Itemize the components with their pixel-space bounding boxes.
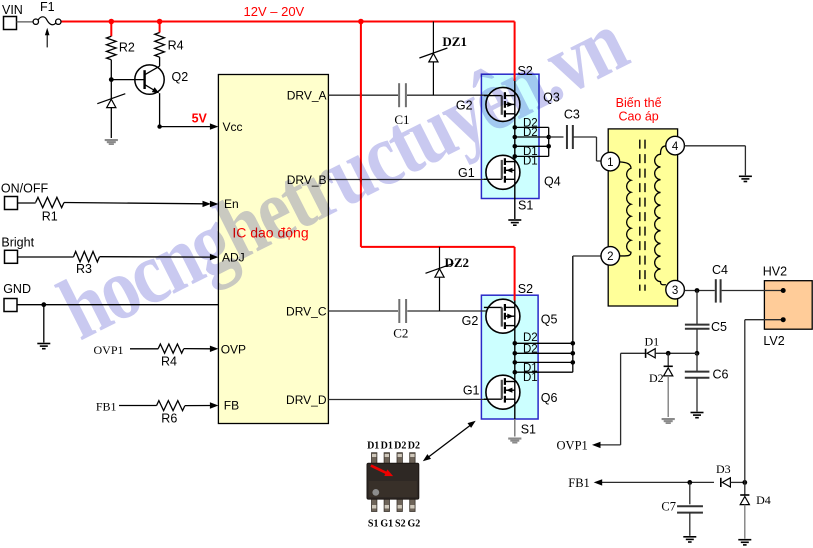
svg-text:D1: D1 <box>381 441 393 452</box>
svg-text:FB1: FB1 <box>568 476 590 490</box>
svg-text:Q6: Q6 <box>541 391 558 405</box>
svg-text:OVP1: OVP1 <box>557 439 588 453</box>
svg-text:R1: R1 <box>42 210 58 224</box>
svg-text:4: 4 <box>672 141 679 153</box>
svg-text:D1: D1 <box>523 372 538 384</box>
svg-text:GND: GND <box>3 282 31 296</box>
svg-text:D1: D1 <box>367 441 379 452</box>
svg-text:R4: R4 <box>168 39 184 53</box>
svg-text:3: 3 <box>672 285 678 297</box>
svg-text:D2: D2 <box>408 441 420 452</box>
svg-text:1: 1 <box>607 157 613 169</box>
svg-text:Cao áp: Cao áp <box>618 110 658 124</box>
svg-text:S1: S1 <box>518 198 533 212</box>
svg-text:C7: C7 <box>661 500 676 514</box>
svg-text:S2: S2 <box>518 282 533 296</box>
svg-text:D2: D2 <box>523 332 538 344</box>
svg-text:DRV_D: DRV_D <box>286 393 327 407</box>
svg-text:Q4: Q4 <box>544 175 561 189</box>
svg-text:Biến thế: Biến thế <box>616 96 662 110</box>
svg-text:S1: S1 <box>368 519 379 530</box>
svg-text:G2: G2 <box>462 314 479 328</box>
svg-text:HV2: HV2 <box>763 265 787 279</box>
svg-text:G2: G2 <box>408 519 421 530</box>
svg-text:R2: R2 <box>119 40 135 54</box>
svg-text:Q5: Q5 <box>541 313 558 327</box>
svg-text:12V – 20V: 12V – 20V <box>244 4 305 19</box>
svg-text:DRV_C: DRV_C <box>286 305 327 319</box>
svg-text:D2: D2 <box>394 441 406 452</box>
svg-text:C5: C5 <box>711 320 727 334</box>
svg-text:S2: S2 <box>395 519 406 530</box>
svg-text:D1: D1 <box>523 156 538 168</box>
svg-text:G1: G1 <box>463 384 480 398</box>
svg-text:VIN: VIN <box>2 3 23 17</box>
svg-text:Bright: Bright <box>1 236 34 250</box>
svg-text:DZ1: DZ1 <box>442 34 467 49</box>
svg-text:R4: R4 <box>161 355 177 369</box>
svg-text:C4: C4 <box>712 263 728 277</box>
svg-text:Q2: Q2 <box>172 70 189 84</box>
svg-text:D2: D2 <box>523 343 538 355</box>
svg-text:G1: G1 <box>380 519 393 530</box>
svg-text:DZ2: DZ2 <box>445 255 470 270</box>
svg-text:Vcc: Vcc <box>223 120 243 134</box>
svg-text:S1: S1 <box>521 423 536 437</box>
svg-text:D4: D4 <box>756 493 771 507</box>
svg-text:DRV_A: DRV_A <box>287 89 327 103</box>
svg-text:OVP: OVP <box>221 342 246 356</box>
svg-text:D3: D3 <box>716 462 731 476</box>
svg-text:C2: C2 <box>393 326 408 341</box>
svg-text:ON/OFF: ON/OFF <box>1 181 49 195</box>
svg-text:R6: R6 <box>161 411 177 425</box>
svg-text:FB: FB <box>224 399 239 413</box>
svg-text:5V: 5V <box>192 111 208 125</box>
svg-text:D2: D2 <box>649 371 664 385</box>
svg-text:C6: C6 <box>713 368 729 382</box>
svg-text:LV2: LV2 <box>763 334 784 348</box>
svg-text:FB1: FB1 <box>96 399 117 413</box>
svg-text:2: 2 <box>607 251 613 263</box>
svg-text:D1: D1 <box>645 335 660 349</box>
svg-text:F1: F1 <box>40 0 55 14</box>
